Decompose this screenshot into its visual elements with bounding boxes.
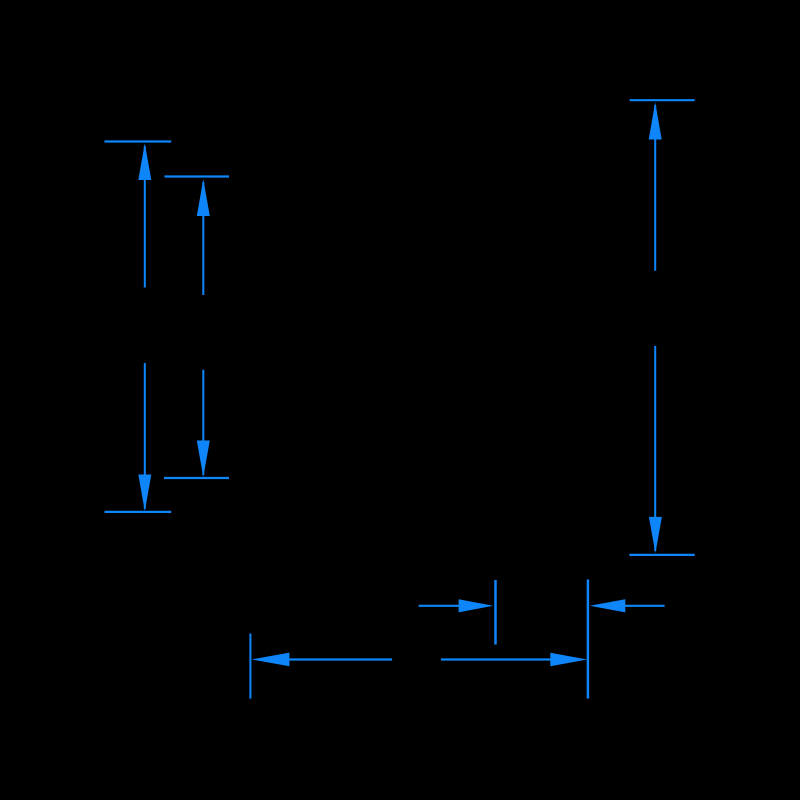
dim C top extension tick <box>630 99 695 101</box>
dim E right-pointing arrowhead <box>550 653 587 667</box>
dim A dimension line upper segment <box>144 146 146 288</box>
dim C down arrowhead <box>649 517 662 553</box>
dim D right-pointing arrowhead <box>459 599 494 612</box>
dim B up arrowhead <box>197 179 210 216</box>
dim A down arrowhead <box>138 475 151 512</box>
dim D right leader line <box>624 605 665 607</box>
dim C up arrowhead <box>649 102 662 139</box>
dim A dimension line lower segment <box>144 363 146 509</box>
dim E dimension line left segment <box>289 658 392 660</box>
dim E dimension line right segment <box>441 658 552 660</box>
dim C dimension line upper segment <box>654 105 656 271</box>
dim D left extension tick <box>494 580 497 645</box>
dim A bottom extension tick <box>105 511 172 513</box>
dim A up arrowhead <box>138 143 151 180</box>
dim B dimension line upper segment <box>202 182 204 295</box>
dim C dimension line lower segment <box>654 346 656 551</box>
dim B down arrowhead <box>197 441 210 478</box>
dim D left leader line <box>419 605 459 607</box>
dim E left-pointing arrowhead <box>252 653 290 667</box>
dim B dimension line lower segment <box>202 370 204 475</box>
dim D left-pointing arrowhead <box>590 599 626 612</box>
dim D right extension tick <box>587 580 590 699</box>
dim B top extension tick <box>165 175 230 177</box>
dim A top extension tick <box>105 140 172 142</box>
dim C bottom extension tick <box>629 554 694 556</box>
dim B bottom extension tick <box>164 477 229 479</box>
dim E left extension tick <box>249 634 251 699</box>
